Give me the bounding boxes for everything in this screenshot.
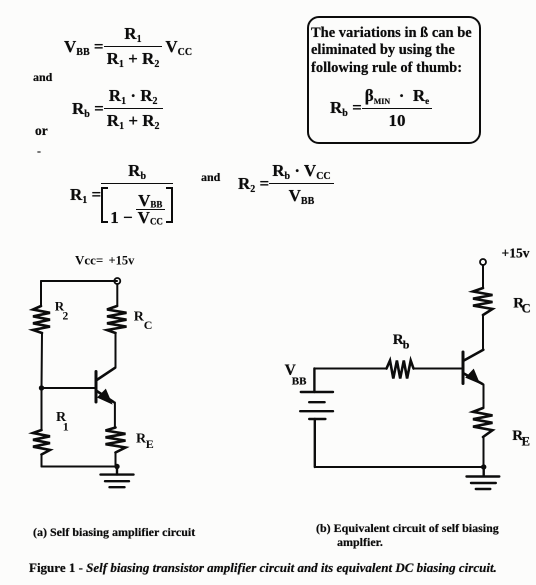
ground: [101, 467, 134, 488]
resistor RE: [473, 408, 493, 437]
formula R2 = Rb.Vcc/Vbb: [238, 161, 334, 206]
stray dash: [37, 144, 41, 159]
caption (a): [33, 525, 195, 540]
label V_BB: [285, 362, 308, 388]
circuit (a): [25, 248, 165, 498]
resistor RC: [107, 306, 127, 333]
node Vcc terminal: [114, 278, 120, 284]
node +15v terminal: [480, 259, 486, 265]
ground: [467, 467, 500, 489]
node base junction: [39, 385, 44, 390]
wire top: [482, 265, 484, 288]
wire emitter bottom: [483, 437, 485, 467]
label R1: [56, 410, 69, 433]
battery V_BB: [300, 369, 333, 468]
node ground junction: [114, 464, 119, 469]
svg-text:E: E: [146, 437, 154, 451]
rule-of-thumb box: [307, 16, 481, 144]
label Vcc= +15v: [75, 252, 135, 267]
node ground junction: [481, 464, 486, 469]
transistor Q1: [96, 368, 115, 403]
label RE: [512, 428, 530, 448]
label RC: [134, 310, 153, 333]
resistor Rb: [387, 361, 414, 379]
wire left lower: [41, 388, 43, 430]
wire base left: [314, 368, 386, 370]
svg-text:+15v: +15v: [502, 246, 530, 261]
wire collector: [115, 333, 117, 368]
formula V_BB = R1/(R1+R2) Vcc: [64, 24, 192, 69]
svg-text:C: C: [522, 302, 531, 316]
word and: [33, 70, 52, 85]
label RC: [513, 295, 530, 315]
svg-text:+15v: +15v: [109, 253, 136, 267]
label RE: [136, 432, 154, 452]
figure caption: [29, 560, 497, 576]
svg-text:C: C: [144, 318, 153, 332]
svg-text:1: 1: [63, 420, 69, 434]
wire collector: [482, 315, 484, 350]
label R2: [55, 298, 69, 322]
transistor Q2: [463, 350, 483, 384]
wire emitter: [114, 403, 116, 428]
label +15v: [502, 246, 530, 261]
wire bottom: [315, 466, 484, 468]
wire bottom: [42, 466, 118, 468]
word and 2: [201, 170, 220, 185]
wire base: [42, 387, 95, 389]
wire base right: [414, 368, 462, 370]
resistor R2: [33, 306, 50, 333]
caption (b): [316, 522, 499, 549]
wire emitter bottom: [115, 453, 117, 467]
resistor R1: [33, 430, 50, 455]
formula Rb = R1.R2/(R1+R2): [72, 86, 163, 131]
wire top: [41, 280, 117, 282]
wire left bottom: [41, 455, 43, 467]
circuit (b): [280, 245, 536, 503]
svg-text:b: b: [403, 338, 410, 352]
formula R1 = Rb/[1-Vbb/Vcc]: [70, 161, 173, 228]
svg-text:2: 2: [63, 310, 69, 322]
svg-text:Vcc=: Vcc=: [75, 252, 103, 267]
resistor RE: [106, 428, 126, 453]
word or: [35, 123, 48, 139]
resistor RC: [473, 288, 493, 315]
label Rb: [393, 332, 410, 352]
wire emitter: [483, 385, 485, 409]
wire right upper: [116, 284, 118, 306]
wire left middle: [41, 333, 44, 388]
svg-text:BB: BB: [292, 376, 307, 388]
svg-text:E: E: [522, 434, 530, 448]
wire left upper: [40, 281, 42, 306]
